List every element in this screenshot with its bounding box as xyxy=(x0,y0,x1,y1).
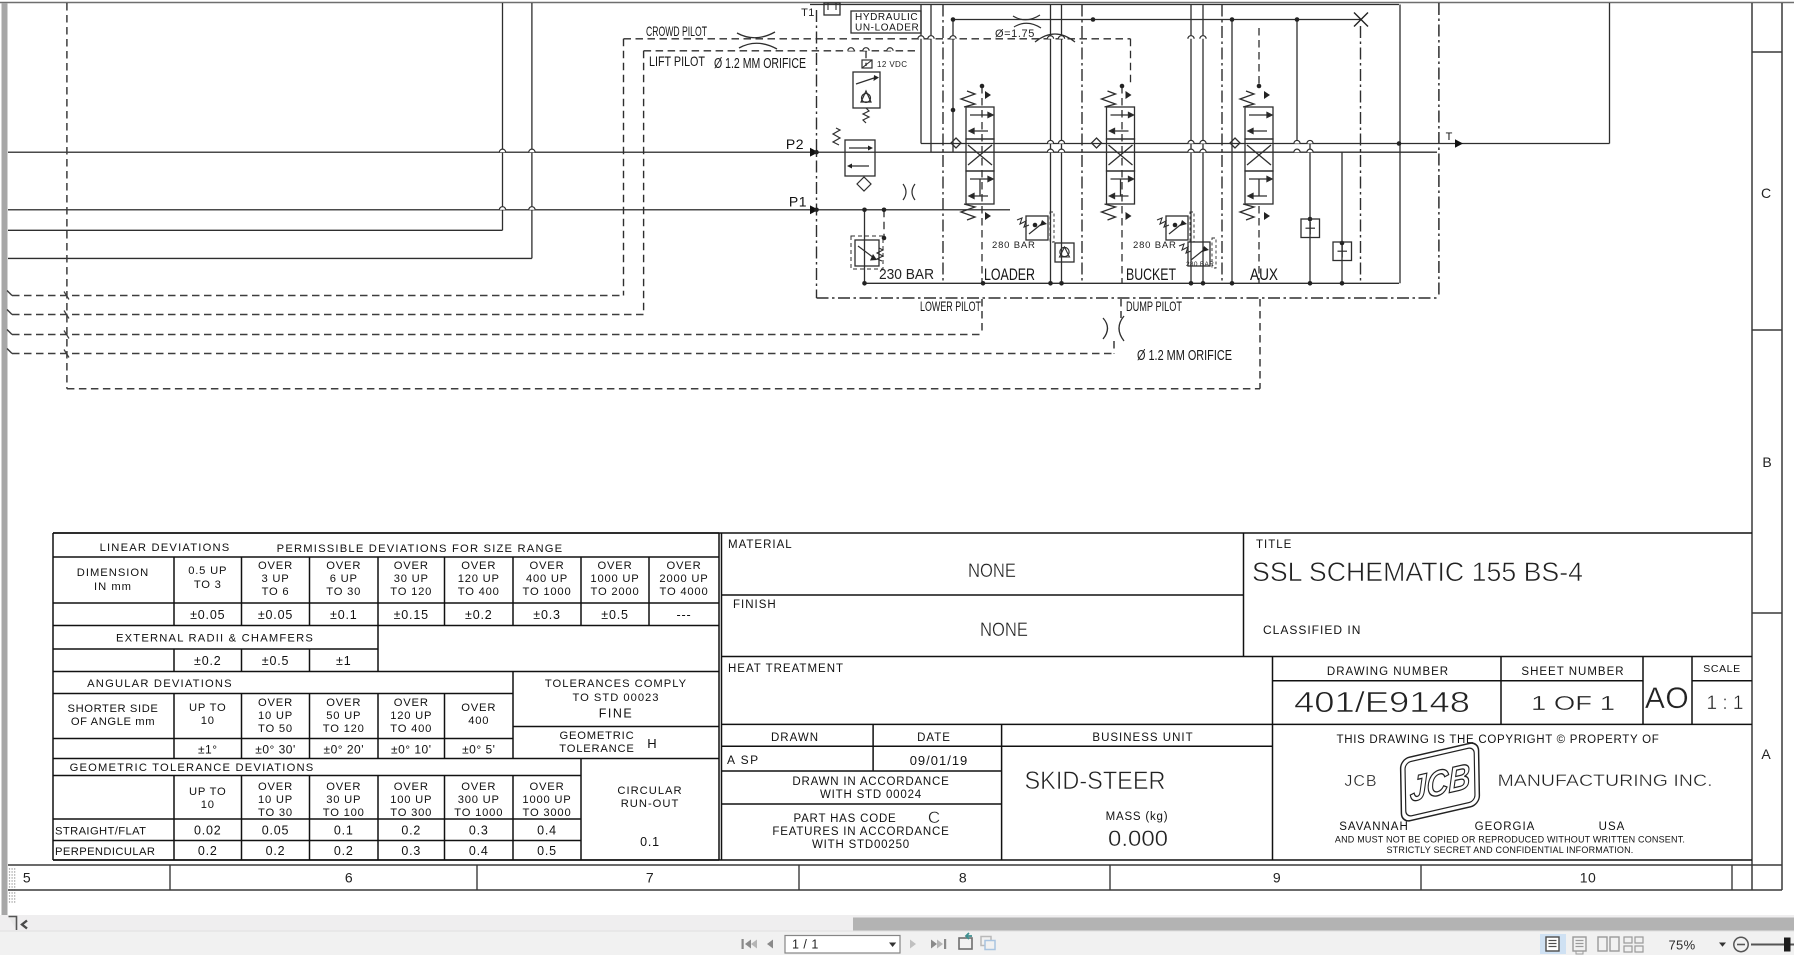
svg-text:OVER: OVER xyxy=(326,781,361,793)
svg-text:6: 6 xyxy=(345,870,353,886)
svg-text:OVER: OVER xyxy=(461,560,496,572)
svg-text:LINEAR DEVIATIONS: LINEAR DEVIATIONS xyxy=(100,542,231,554)
svg-text:30 UP: 30 UP xyxy=(394,573,429,585)
svg-text:CROWD PILOT: CROWD PILOT xyxy=(646,23,707,39)
svg-text:WITH STD00250: WITH STD00250 xyxy=(812,839,910,851)
svg-text:LOADER: LOADER xyxy=(984,266,1035,284)
svg-text:TO 300: TO 300 xyxy=(390,807,432,819)
svg-text:0.1: 0.1 xyxy=(334,824,354,838)
svg-text:±1: ±1 xyxy=(336,654,351,668)
svg-text:12 VDC: 12 VDC xyxy=(877,60,907,69)
svg-text:AUX: AUX xyxy=(1250,266,1278,284)
svg-text:TO 6: TO 6 xyxy=(262,586,290,598)
svg-text:LOWER PILOT: LOWER PILOT xyxy=(920,298,981,314)
svg-text:EXTERNAL RADII & CHAMFERS: EXTERNAL RADII & CHAMFERS xyxy=(116,633,314,645)
svg-text:0.05: 0.05 xyxy=(262,824,290,838)
svg-text:120 UP: 120 UP xyxy=(458,573,500,585)
svg-text:FINE: FINE xyxy=(599,707,633,721)
svg-text:±0.1: ±0.1 xyxy=(330,608,357,622)
svg-text:TOLERANCES COMPLY: TOLERANCES COMPLY xyxy=(545,678,687,690)
svg-text:SKID-STEER: SKID-STEER xyxy=(1025,767,1166,795)
svg-text:UP TO: UP TO xyxy=(189,786,227,798)
svg-text:SHORTER SIDE: SHORTER SIDE xyxy=(68,703,159,715)
svg-text:CIRCULAR: CIRCULAR xyxy=(617,785,682,797)
svg-text:±0.3: ±0.3 xyxy=(533,608,560,622)
svg-text:A: A xyxy=(1761,746,1771,762)
svg-text:MASS (kg): MASS (kg) xyxy=(1106,811,1169,823)
svg-text:0.2: 0.2 xyxy=(266,844,286,858)
svg-text:5: 5 xyxy=(23,870,31,886)
svg-text:PERPENDICULAR: PERPENDICULAR xyxy=(55,846,155,858)
svg-text:30 UP: 30 UP xyxy=(326,794,361,806)
svg-text:10: 10 xyxy=(201,799,215,811)
svg-text:MANUFACTURING INC.: MANUFACTURING INC. xyxy=(1498,772,1713,790)
svg-text:A SP: A SP xyxy=(727,753,760,767)
svg-text:WITH STD 00024: WITH STD 00024 xyxy=(820,789,922,801)
svg-text:TO 100: TO 100 xyxy=(323,807,365,819)
svg-text:0.5 UP: 0.5 UP xyxy=(188,565,227,577)
svg-text:TO 3000: TO 3000 xyxy=(523,807,572,819)
svg-text:MATERIAL: MATERIAL xyxy=(728,539,793,551)
svg-text:50 UP: 50 UP xyxy=(326,710,361,722)
svg-text:GEORGIA: GEORGIA xyxy=(1475,821,1536,833)
svg-text:±0.2: ±0.2 xyxy=(465,608,492,622)
svg-text:H: H xyxy=(647,736,656,751)
svg-text:OVER: OVER xyxy=(258,697,293,709)
svg-text:B: B xyxy=(1762,454,1771,470)
svg-text:±1°: ±1° xyxy=(198,743,218,757)
svg-text:NONE: NONE xyxy=(980,620,1028,641)
svg-text:8: 8 xyxy=(959,870,967,886)
svg-text:±0.05: ±0.05 xyxy=(258,608,293,622)
svg-text:OVER: OVER xyxy=(530,560,565,572)
svg-text:---: --- xyxy=(677,608,692,622)
svg-text:2000 UP: 2000 UP xyxy=(659,573,708,585)
svg-text:DUMP PILOT: DUMP PILOT xyxy=(1126,298,1182,314)
svg-text:09/01/19: 09/01/19 xyxy=(910,753,969,768)
svg-text:BUSINESS UNIT: BUSINESS UNIT xyxy=(1092,732,1193,744)
svg-text:OVER: OVER xyxy=(461,702,496,714)
svg-text:GEOMETRIC TOLERANCE DEVIATIONS: GEOMETRIC TOLERANCE DEVIATIONS xyxy=(70,762,315,774)
svg-text:±0.15: ±0.15 xyxy=(394,608,429,622)
svg-text:1000 UP: 1000 UP xyxy=(590,573,639,585)
svg-text:FINISH: FINISH xyxy=(733,599,777,611)
svg-text:230 BAR: 230 BAR xyxy=(879,267,934,283)
svg-text:OVER: OVER xyxy=(667,560,702,572)
svg-text:T1: T1 xyxy=(801,7,815,19)
svg-text:PERMISSIBLE DEVIATIONS FOR SIZ: PERMISSIBLE DEVIATIONS FOR SIZE RANGE xyxy=(277,543,564,555)
svg-text:0.4: 0.4 xyxy=(537,824,557,838)
svg-text:OVER: OVER xyxy=(530,781,565,793)
svg-text:UP TO: UP TO xyxy=(189,702,227,714)
svg-text:±0° 5': ±0° 5' xyxy=(462,743,495,757)
svg-text:DRAWN IN ACCORDANCE: DRAWN IN ACCORDANCE xyxy=(792,776,949,788)
svg-text:OVER: OVER xyxy=(461,781,496,793)
svg-text:RUN-OUT: RUN-OUT xyxy=(621,798,680,810)
svg-text:OVER: OVER xyxy=(326,697,361,709)
svg-text:SSL SCHEMATIC 155 BS-4: SSL SCHEMATIC 155 BS-4 xyxy=(1252,557,1583,587)
svg-text:C: C xyxy=(1761,185,1771,201)
svg-text:DIMENSION: DIMENSION xyxy=(77,567,149,579)
svg-text:THIS DRAWING IS THE COPYRIGHT: THIS DRAWING IS THE COPYRIGHT © PROPERTY… xyxy=(1337,734,1660,746)
svg-text:P1: P1 xyxy=(789,194,807,210)
svg-text:IN mm: IN mm xyxy=(94,581,132,593)
svg-text:0.5: 0.5 xyxy=(537,844,557,858)
svg-text:P2: P2 xyxy=(786,136,804,152)
svg-text:1 : 1: 1 : 1 xyxy=(1707,693,1744,714)
svg-text:GEOMETRIC: GEOMETRIC xyxy=(560,730,635,742)
svg-text:BUCKET: BUCKET xyxy=(1126,266,1176,284)
svg-text:STRAIGHT/FLAT: STRAIGHT/FLAT xyxy=(55,826,146,838)
svg-text:0.3: 0.3 xyxy=(401,844,421,858)
svg-text:0.000: 0.000 xyxy=(1108,826,1168,851)
svg-text:TO 1000: TO 1000 xyxy=(523,586,572,598)
svg-text:0.3: 0.3 xyxy=(469,824,489,838)
svg-text:AND MUST NOT BE COPIED OR REPR: AND MUST NOT BE COPIED OR REPRODUCED WIT… xyxy=(1335,835,1685,845)
svg-text:±0.2: ±0.2 xyxy=(194,654,221,668)
svg-text:300 UP: 300 UP xyxy=(458,794,500,806)
svg-text:TITLE: TITLE xyxy=(1256,539,1292,551)
svg-text:CLASSIFIED IN: CLASSIFIED IN xyxy=(1263,623,1361,637)
svg-text:AO: AO xyxy=(1645,682,1689,715)
svg-text:TO 120: TO 120 xyxy=(323,723,365,735)
svg-text:9: 9 xyxy=(1273,870,1281,886)
svg-text:TO 30: TO 30 xyxy=(326,586,361,598)
svg-text:10 UP: 10 UP xyxy=(258,710,293,722)
svg-text:0.2: 0.2 xyxy=(401,824,421,838)
svg-text:TO STD 00023: TO STD 00023 xyxy=(572,692,659,704)
svg-text:0.02: 0.02 xyxy=(194,824,222,838)
svg-text:DRAWN: DRAWN xyxy=(771,732,819,744)
svg-text:LIFT PILOT: LIFT PILOT xyxy=(649,53,705,69)
svg-text:TO 3: TO 3 xyxy=(194,579,222,591)
svg-text:TO 50: TO 50 xyxy=(258,723,293,735)
svg-text:±0.5: ±0.5 xyxy=(601,608,628,622)
svg-text:STRICTLY SECRET AND CONFIDENTI: STRICTLY SECRET AND CONFIDENTIAL INFORMA… xyxy=(1386,845,1633,855)
svg-text:Ø 1.2 MM ORIFICE: Ø 1.2 MM ORIFICE xyxy=(714,56,806,72)
svg-text:0.4: 0.4 xyxy=(469,844,489,858)
svg-text:NONE: NONE xyxy=(968,561,1016,582)
svg-text:0.2: 0.2 xyxy=(334,844,354,858)
svg-text:10: 10 xyxy=(1580,870,1597,886)
svg-text:JCB: JCB xyxy=(1344,773,1377,790)
svg-text:100 UP: 100 UP xyxy=(390,794,432,806)
svg-text:6 UP: 6 UP xyxy=(330,573,358,585)
svg-text:10: 10 xyxy=(201,715,215,727)
svg-text:±0° 30': ±0° 30' xyxy=(255,743,296,757)
svg-text:280 BAR: 280 BAR xyxy=(992,240,1036,251)
svg-text:1 / 1: 1 / 1 xyxy=(792,938,819,952)
svg-text:TO 1000: TO 1000 xyxy=(454,807,503,819)
svg-text:TOLERANCE: TOLERANCE xyxy=(559,743,634,755)
svg-text:±0° 10': ±0° 10' xyxy=(391,743,432,757)
svg-text:DRAWING NUMBER: DRAWING NUMBER xyxy=(1327,666,1449,678)
svg-text:PART HAS CODE: PART HAS CODE xyxy=(793,813,896,825)
svg-text:401/E9148: 401/E9148 xyxy=(1294,687,1470,719)
svg-text:400: 400 xyxy=(468,715,489,727)
svg-text:OVER: OVER xyxy=(258,560,293,572)
svg-text:OF ANGLE mm: OF ANGLE mm xyxy=(71,716,155,728)
svg-text:TO 120: TO 120 xyxy=(390,586,432,598)
svg-text:SAVANNAH: SAVANNAH xyxy=(1339,821,1409,833)
svg-text:TO 400: TO 400 xyxy=(390,723,432,735)
svg-text:Ø 1.2 MM ORIFICE: Ø 1.2 MM ORIFICE xyxy=(1137,348,1232,364)
svg-text:USA: USA xyxy=(1599,821,1626,833)
svg-text:TO 4000: TO 4000 xyxy=(660,586,709,598)
svg-text:280 BAR: 280 BAR xyxy=(1133,240,1177,251)
svg-text:C: C xyxy=(928,808,940,827)
svg-text:FEATURES IN ACCORDANCE: FEATURES IN ACCORDANCE xyxy=(772,826,949,838)
svg-text:TO 2000: TO 2000 xyxy=(591,586,640,598)
svg-text:TO 400: TO 400 xyxy=(458,586,500,598)
svg-text:400 UP: 400 UP xyxy=(526,573,568,585)
svg-text:UN-LOADER: UN-LOADER xyxy=(855,23,919,34)
svg-text:Ø=1.75: Ø=1.75 xyxy=(995,28,1035,40)
svg-text:3 UP: 3 UP xyxy=(261,573,289,585)
svg-text:DATE: DATE xyxy=(917,732,951,744)
svg-text:SHEET NUMBER: SHEET NUMBER xyxy=(1521,666,1624,678)
svg-text:HEAT TREATMENT: HEAT TREATMENT xyxy=(728,663,844,675)
svg-text:75%: 75% xyxy=(1669,938,1696,953)
svg-text:OVER: OVER xyxy=(258,781,293,793)
svg-text:TO 30: TO 30 xyxy=(258,807,293,819)
svg-text:±0° 20': ±0° 20' xyxy=(323,743,364,757)
svg-text:120 UP: 120 UP xyxy=(390,710,432,722)
svg-text:±0.5: ±0.5 xyxy=(262,654,289,668)
svg-text:10 UP: 10 UP xyxy=(258,794,293,806)
svg-text:OVER: OVER xyxy=(394,560,429,572)
svg-text:OVER: OVER xyxy=(326,560,361,572)
svg-text:7: 7 xyxy=(646,870,654,886)
svg-text:T: T xyxy=(1446,131,1453,143)
svg-text:1 OF 1: 1 OF 1 xyxy=(1531,693,1615,715)
svg-text:SCALE: SCALE xyxy=(1703,663,1740,675)
svg-text:1000 UP: 1000 UP xyxy=(522,794,571,806)
svg-text:0.2: 0.2 xyxy=(198,844,218,858)
svg-text:OVER: OVER xyxy=(394,781,429,793)
svg-text:OVER: OVER xyxy=(598,560,633,572)
svg-text:±0.05: ±0.05 xyxy=(190,608,225,622)
svg-text:OVER: OVER xyxy=(394,697,429,709)
svg-text:0.1: 0.1 xyxy=(640,835,660,849)
svg-text:HYDRAULIC: HYDRAULIC xyxy=(855,12,918,23)
svg-text:ANGULAR DEVIATIONS: ANGULAR DEVIATIONS xyxy=(87,678,233,690)
